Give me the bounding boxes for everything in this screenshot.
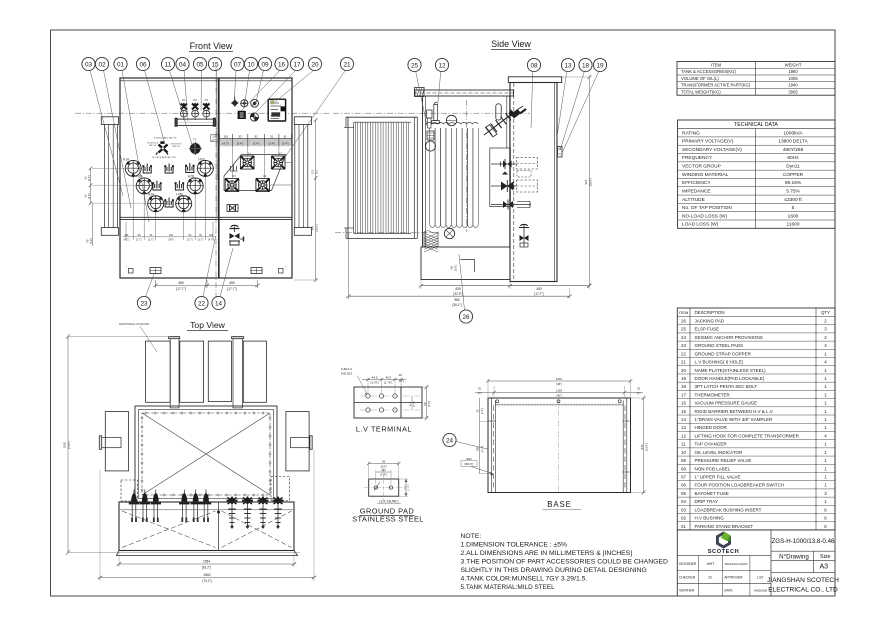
- parking stand bracket (item 01): [185, 163, 195, 173]
- top view tank diagonal brace X: [142, 413, 270, 495]
- scotech logo: [708, 531, 740, 555]
- base detail outline: [488, 398, 631, 493]
- side view oil fill plug circle: [446, 115, 456, 125]
- svg-text:TECHNOLOGIST: TECHNOLOGIST: [724, 562, 748, 566]
- svg-text:[35.6"]: [35.6"]: [589, 178, 593, 186]
- svg-text:A3: A3: [820, 564, 829, 571]
- svg-text:BASE: BASE: [547, 500, 571, 509]
- svg-text:DATE: DATE: [724, 588, 733, 592]
- top view HV bushing: [140, 490, 150, 523]
- additional cooling label: [119, 322, 157, 352]
- svg-text:12: 12: [681, 433, 686, 438]
- svg-text:26: 26: [681, 319, 686, 324]
- svg-text:NON PCB LABEL: NON PCB LABEL: [695, 466, 731, 471]
- svg-text:[1.75"]: [1.75"]: [380, 475, 387, 477]
- svg-text:[2.2"]: [2.2"]: [88, 193, 91, 199]
- svg-text:[4.7"]: [4.7"]: [223, 142, 230, 146]
- side view cabinet opening frame: [490, 148, 511, 207]
- callout balloon 19: [563, 58, 607, 152]
- side view door handle (items 18/19): [558, 147, 563, 158]
- svg-text:11600: 11600: [787, 222, 800, 228]
- svg-text:99.16%: 99.16%: [785, 180, 802, 186]
- svg-text:[3.7"]: [3.7"]: [136, 239, 142, 242]
- svg-text:IMPEDANCE: IMPEDANCE: [682, 188, 711, 194]
- svg-text:ADDITIONAL COOLING: ADDITIONAL COOLING: [119, 322, 149, 326]
- callout balloon 15: [208, 57, 221, 180]
- LV terminal detail plate: [354, 387, 422, 418]
- svg-text:19: 19: [596, 62, 604, 69]
- HV bushing dimension row: [123, 177, 216, 242]
- parts list table: [677, 308, 835, 530]
- callout balloon 17: [254, 57, 304, 115]
- svg-text:1920: 1920: [63, 441, 67, 448]
- svg-text:SOURCE A&B TAP ON: SOURCE A&B TAP ON: [154, 137, 177, 140]
- front view HV/LV divider wall: [217, 78, 219, 278]
- bayonet fuse P3 (item 05): [203, 98, 210, 120]
- svg-text:ALTITUDE: ALTITUDE: [682, 197, 705, 203]
- svg-text:1B1: 1B1: [124, 234, 129, 237]
- svg-text:COPPER: COPPER: [783, 172, 804, 178]
- svg-text:[1.75"]: [1.75"]: [408, 484, 410, 490]
- svg-text:[31.9"]: [31.9"]: [644, 443, 648, 451]
- callout balloon 04: [176, 57, 189, 121]
- svg-text:14: 14: [215, 300, 223, 307]
- ground pad thread label: [377, 500, 401, 504]
- svg-text:06: 06: [681, 483, 686, 488]
- side view LV bushing stack lower: [491, 200, 531, 210]
- drawing number cell: [771, 538, 835, 551]
- svg-text:[61.2"]: [61.2"]: [202, 565, 211, 569]
- side view radiator bank: [344, 117, 418, 238]
- callout balloon 16: [241, 57, 288, 111]
- svg-text:23: 23: [681, 343, 686, 348]
- svg-text:25: 25: [411, 62, 419, 69]
- svg-text:SCOTECH: SCOTECH: [708, 549, 740, 555]
- company name cell: [767, 577, 839, 593]
- svg-text:APPROVER: APPROVER: [724, 576, 743, 580]
- svg-text:JACKING PAD: JACKING PAD: [695, 319, 725, 324]
- svg-text:07: 07: [234, 61, 242, 68]
- thermometer symbol (item 17): [250, 113, 258, 121]
- svg-text:FREQUENCY: FREQUENCY: [682, 155, 713, 161]
- svg-text:NO-LOAD LOSS (W): NO-LOAD LOSS (W): [682, 213, 727, 219]
- top view cabinet: [119, 502, 294, 551]
- svg-text:GROUND STEEL PADS: GROUND STEEL PADS: [695, 343, 744, 348]
- ground pad dim 99: [367, 460, 401, 478]
- top view title: [187, 320, 228, 331]
- base dim height 835: [631, 396, 648, 495]
- drain valve (item 14): [229, 225, 244, 245]
- svg-text:PARKING STAND BRACKET: PARKING STAND BRACKET: [695, 524, 754, 529]
- front view sill line: [120, 217, 292, 219]
- svg-text:5: 5: [792, 205, 795, 211]
- top view radiator bank 4: [243, 341, 266, 402]
- svg-text:11B: 11B: [209, 234, 213, 237]
- top view HV bushing: [151, 490, 161, 523]
- svg-text:1940: 1940: [788, 83, 798, 88]
- svg-text:20: 20: [681, 368, 686, 373]
- svg-text:DOOR HANDLE(PAD LOCKABLE): DOOR HANDLE(PAD LOCKABLE): [695, 376, 765, 381]
- title block frame: [677, 530, 835, 596]
- side view cabinet: [508, 77, 561, 282]
- svg-text:1960: 1960: [788, 69, 798, 74]
- svg-text:Top View: Top View: [190, 320, 226, 330]
- front base corner mark left: [125, 265, 133, 273]
- title block signature grid: [677, 555, 771, 596]
- svg-text:H.V BUSHING: H.V BUSHING: [695, 516, 725, 521]
- svg-text:91: 91: [270, 135, 274, 139]
- svg-text:WHT: WHT: [707, 562, 715, 566]
- svg-text:[3.4"]: [3.4"]: [253, 142, 260, 146]
- svg-text:[46"]: [46"]: [556, 393, 562, 397]
- svg-text:14: 14: [681, 417, 686, 422]
- svg-text:RIGID BARRIER BETWEEN H.V & L.: RIGID BARRIER BETWEEN H.V & L.V: [695, 409, 773, 414]
- svg-text:[1.75"]: [1.75"]: [371, 381, 379, 385]
- svg-text:[3.4"]: [3.4"]: [282, 142, 289, 146]
- svg-text:16: 16: [681, 401, 686, 406]
- svg-text:H2B: H2B: [188, 175, 194, 179]
- top view cabinet front sill: [117, 551, 298, 556]
- front base pad left (item 23 target): [150, 268, 161, 274]
- svg-text:25: 25: [681, 327, 686, 332]
- svg-text:H1A: H1A: [123, 158, 130, 162]
- top view HV bushing: [201, 490, 211, 523]
- side view LV bushing stack upper: [491, 158, 538, 178]
- callout balloon 23: [137, 274, 154, 310]
- svg-text:[32.9"]: [32.9"]: [453, 292, 462, 296]
- svg-text:450: 450: [229, 281, 235, 285]
- callout balloon 11: [161, 57, 192, 146]
- four position loadbreak switch (item 06): [147, 137, 182, 159]
- front view right channel bracket: [294, 117, 311, 236]
- svg-text:Dyn11: Dyn11: [786, 164, 800, 170]
- svg-text:X2: X2: [263, 174, 267, 178]
- svg-text:09: 09: [681, 458, 686, 463]
- weight table: [677, 62, 835, 96]
- svg-text:[1.75"]: [1.75"]: [414, 401, 416, 407]
- top view radiator strut 2: [232, 337, 244, 408]
- LV terminal label: [356, 425, 412, 434]
- svg-text:TANK & ACCESSORIES(KG): TANK & ACCESSORIES(KG): [681, 69, 736, 74]
- svg-text:TECHNICAL DATA: TECHNICAL DATA: [734, 122, 778, 128]
- svg-text:1600: 1600: [788, 213, 799, 219]
- LV terminal right dimensions: [410, 385, 431, 420]
- svg-text:1210: 1210: [556, 377, 563, 381]
- svg-text:1005: 1005: [788, 76, 798, 81]
- front view vertical centerline: [215, 66, 217, 298]
- callout balloon 18: [561, 58, 593, 149]
- svg-text:22: 22: [198, 300, 206, 307]
- svg-text:118: 118: [224, 135, 229, 139]
- callout balloon 03: [82, 57, 123, 196]
- side view tank walls: [423, 96, 510, 247]
- svg-text:08: 08: [681, 466, 686, 471]
- svg-text:180: 180: [451, 265, 454, 270]
- top view LV bushing: [227, 496, 238, 529]
- svg-text:91: 91: [284, 135, 288, 139]
- svg-text:2.ALL DIMENSIONS ARE IN MILLIM: 2.ALL DIMENSIONS ARE IN MILLIMETERS & [I…: [461, 550, 633, 557]
- svg-text:08: 08: [530, 62, 538, 69]
- top view HV bushing: [129, 490, 139, 523]
- svg-text:X0: X0: [232, 174, 236, 178]
- svg-text:18: 18: [582, 62, 590, 69]
- svg-text:845: 845: [311, 225, 315, 230]
- svg-text:05: 05: [681, 491, 686, 496]
- svg-text:[48"]: [48"]: [556, 382, 562, 386]
- svg-text:[4.7"]: [4.7"]: [212, 139, 218, 142]
- svg-text:810: 810: [640, 444, 644, 449]
- svg-text:[1"]: [1"]: [478, 392, 482, 395]
- svg-text:VERIFIER: VERIFIER: [679, 588, 695, 592]
- svg-text:ELSP FUSE: ELSP FUSE: [695, 327, 720, 332]
- svg-text:DRIP TRAY: DRIP TRAY: [695, 499, 719, 504]
- svg-text:[17.7"]: [17.7"]: [176, 287, 186, 291]
- svg-text:3905: 3905: [788, 89, 798, 94]
- svg-text:92: 92: [238, 135, 242, 139]
- svg-text:[11.7"]: [11.7"]: [482, 445, 484, 452]
- svg-text:835: 835: [455, 287, 461, 291]
- svg-text:960: 960: [454, 298, 460, 302]
- drawing size cells: [771, 551, 835, 573]
- svg-text:TAP ON: TAP ON: [149, 144, 157, 147]
- side view tank rim bracket: [496, 104, 501, 120]
- svg-text:1"DRAIN VALVE WITH 3/8" SAMPLE: 1"DRAIN VALVE WITH 3/8" SAMPLER: [695, 417, 774, 422]
- svg-text:[33.3"]: [33.3"]: [316, 224, 319, 231]
- svg-text:05: 05: [196, 61, 204, 68]
- top view HV bushing: [179, 490, 189, 523]
- svg-text:THERMOMETER: THERMOMETER: [695, 392, 731, 397]
- svg-text:[2.2"]: [2.2"]: [88, 175, 91, 181]
- svg-text:SEISMIC ANCHOR PROVISIONS: SEISMIC ANCHOR PROVISIONS: [695, 335, 763, 340]
- base detail bolt circles: [496, 400, 621, 403]
- svg-text:NAME PLATE(STAINLESS STEEL): NAME PLATE(STAINLESS STEEL): [695, 368, 767, 373]
- svg-text:13: 13: [564, 62, 572, 69]
- LV terminal hole leader label: [341, 367, 367, 395]
- callout balloon 25: [408, 58, 427, 126]
- callout balloon 13: [557, 58, 575, 140]
- svg-text:H3A: H3A: [148, 193, 155, 197]
- side view base: [421, 247, 510, 280]
- svg-text:ITEM: ITEM: [679, 310, 689, 315]
- callout balloon 26: [459, 254, 473, 323]
- LV compartment slanted barrier outline: [224, 155, 286, 191]
- svg-text:H2A: H2A: [136, 175, 143, 179]
- svg-text:15: 15: [211, 61, 219, 68]
- svg-text:ZGS-H-1000/13.8-0.46: ZGS-H-1000/13.8-0.46: [772, 538, 835, 545]
- svg-text:25A: 25A: [169, 234, 174, 237]
- svg-text:18: 18: [681, 384, 686, 389]
- svg-text:15: 15: [681, 409, 686, 414]
- svg-text:X1: X1: [248, 152, 252, 156]
- LV bushing X0 (item 21): [225, 174, 239, 192]
- svg-text:HINGED DOOR: HINGED DOOR: [695, 425, 728, 430]
- callout balloon 02: [95, 57, 131, 208]
- svg-text:16: 16: [278, 61, 286, 68]
- svg-text:P1: P1: [182, 98, 186, 102]
- svg-text:24: 24: [681, 335, 686, 340]
- svg-text:[73.2"]: [73.2"]: [202, 579, 211, 583]
- side view horizontal centerline lower: [335, 232, 435, 234]
- LV bushing X3 (item 21): [271, 152, 285, 170]
- side view height dimension 905: [562, 75, 593, 288]
- svg-text:H3B: H3B: [176, 193, 182, 197]
- svg-text:01: 01: [117, 61, 125, 68]
- HV bushing H3B (item 02): [176, 193, 192, 213]
- ground pad plate: [364, 468, 404, 500]
- side view tank lid beam: [415, 90, 514, 96]
- LV terminal top dimensions: [362, 373, 406, 393]
- top view seismic anchor right: [271, 477, 290, 501]
- fuse support bar: [175, 118, 216, 126]
- svg-text:60Hz: 60Hz: [787, 155, 799, 161]
- svg-text:04: 04: [681, 499, 686, 504]
- svg-text:[3.9"]: [3.9"]: [90, 238, 93, 244]
- oil level indicator symbol (item 10): [241, 100, 248, 107]
- svg-text:[99"]: [99"]: [169, 239, 174, 242]
- svg-text:04/25/2008: 04/25/2008: [754, 588, 768, 592]
- svg-text:N°Drawing: N°Drawing: [779, 553, 809, 560]
- HV bushing H1A (item 02): [123, 158, 141, 178]
- front base corner mark right: [279, 265, 287, 273]
- svg-text:[1.9"]: [1.9"]: [482, 408, 484, 414]
- svg-text:23: 23: [140, 300, 148, 307]
- svg-text:[3.5"]: [3.5"]: [427, 401, 431, 408]
- ground pad holes: [374, 482, 393, 491]
- side view ELSP fuse stack (item 25): [426, 110, 436, 151]
- base dim inner width: [475, 386, 643, 397]
- svg-text:LOADBREAK BUSHING INSERT: LOADBREAK BUSHING INSERT: [695, 507, 762, 512]
- svg-text:13: 13: [681, 425, 686, 430]
- front base pad right: [251, 268, 262, 274]
- notes block: [461, 533, 668, 591]
- bayonet fuse P2 (item 05): [192, 98, 199, 120]
- side view LV bushing stack middle: [491, 180, 538, 192]
- svg-text:17: 17: [681, 392, 686, 397]
- dim label 118 box: [211, 135, 218, 143]
- side view drain valve: [519, 224, 529, 247]
- side view hatched wedge: [424, 231, 438, 252]
- svg-text:02: 02: [98, 61, 106, 68]
- vacuum gauge symbol (item 16): [238, 111, 245, 118]
- ground pad title: [352, 507, 424, 524]
- svg-text:03: 03: [85, 61, 93, 68]
- svg-text:NOTE:: NOTE:: [461, 533, 482, 540]
- side view lifting hook (item 12): [432, 102, 440, 124]
- ground pad right dim: [399, 479, 410, 496]
- top view height dimension 1920: [63, 334, 301, 554]
- svg-text:[1"]: [1"]: [637, 392, 641, 395]
- svg-text:5.TANK MATERIAL:MILD STEEL: 5.TANK MATERIAL:MILD STEEL: [461, 584, 556, 591]
- front left dimension chain: [84, 167, 157, 246]
- top view seismic anchor left (item 24 style): [121, 480, 138, 501]
- svg-text:LIFTING HOOK FOR COMPLETE TRAN: LIFTING HOOK FOR COMPLETE TRANSFORMER: [695, 433, 800, 438]
- svg-text:6-Φ14.3: 6-Φ14.3: [341, 367, 352, 371]
- svg-text:44.5: 44.5: [372, 375, 378, 379]
- svg-text:PRIMARY VOLTAGE(V): PRIMARY VOLTAGE(V): [682, 139, 734, 145]
- svg-text:STAINLESS STEEL: STAINLESS STEEL: [352, 515, 424, 524]
- svg-text:Side View: Side View: [491, 39, 531, 49]
- side view overall dimension 960: [346, 233, 571, 307]
- svg-text:24: 24: [446, 437, 454, 444]
- base dim outer width: [486, 377, 632, 397]
- svg-text:H1B: H1B: [198, 158, 204, 162]
- svg-text:[4.2"]: [4.2"]: [124, 239, 130, 242]
- svg-text:TOTAL WEIGHT(KG): TOTAL WEIGHT(KG): [681, 89, 721, 94]
- LV bushing X1 (item 21): [240, 152, 254, 170]
- ground trident symbol: [230, 165, 238, 171]
- svg-text:VECTOR GROUP: VECTOR GROUP: [682, 164, 721, 170]
- svg-text:09: 09: [261, 61, 269, 68]
- svg-text:02: 02: [681, 516, 686, 521]
- LV bushing column extension lines: [232, 143, 292, 185]
- svg-text:OIL LEVEL INDICATOR: OIL LEVEL INDICATOR: [695, 450, 744, 455]
- HV bushing H1B (item 02): [197, 158, 213, 178]
- svg-text:44.5: 44.5: [381, 469, 386, 472]
- svg-text:≤3300 ft: ≤3300 ft: [784, 197, 802, 203]
- svg-text:ITEM: ITEM: [711, 63, 722, 68]
- svg-text:DESCRIPTION: DESCRIPTION: [695, 310, 725, 315]
- HV bushing H3A (item 02): [148, 193, 164, 213]
- callout balloon 06: [136, 57, 165, 144]
- svg-text:(1/2-13UNC): (1/2-13UNC): [379, 500, 398, 504]
- side view horizontal centerline upper: [333, 112, 530, 114]
- svg-text:[0.9"]: [0.9"]: [455, 265, 458, 271]
- callout balloon 10: [244, 57, 257, 105]
- svg-text:1860: 1860: [203, 573, 210, 577]
- svg-text:12: 12: [438, 62, 446, 69]
- svg-text:T1: T1: [193, 138, 197, 142]
- top view cabinet center bolt: [217, 511, 220, 514]
- svg-text:905: 905: [584, 179, 588, 184]
- LV bushing X2 (item 21): [256, 174, 270, 192]
- side view title: [491, 39, 531, 50]
- svg-text:270: 270: [311, 169, 315, 174]
- svg-text:16: 16: [398, 373, 402, 377]
- svg-text:21: 21: [343, 61, 351, 68]
- front bottom dimension 450/450: [153, 280, 259, 291]
- callout balloon 08: [527, 58, 540, 128]
- front view title: [189, 41, 233, 52]
- svg-text:JIANGSHAN SCOTECH: JIANGSHAN SCOTECH: [767, 577, 839, 584]
- nameplate (item 20): [268, 99, 285, 121]
- svg-text:CHECKER: CHECKER: [679, 576, 696, 580]
- front view horizontal centerline: [75, 112, 330, 114]
- svg-text:22: 22: [681, 351, 686, 356]
- ground pad dim 44.5: [376, 469, 391, 484]
- side view corrugation centerline: [466, 100, 468, 232]
- side view lifting lug hatched: [415, 88, 425, 97]
- LV dimension strip: [219, 134, 292, 146]
- pressure relief valve symbol (item 09): [251, 99, 259, 107]
- svg-text:[4.7"]: [4.7"]: [208, 239, 214, 242]
- svg-text:450: 450: [536, 287, 542, 291]
- svg-text:[17.7"]: [17.7"]: [534, 292, 543, 296]
- svg-text:L.V BUSHING( 6 HOLE): L.V BUSHING( 6 HOLE): [695, 360, 744, 365]
- svg-text:11: 11: [681, 442, 686, 447]
- svg-text:Size: Size: [820, 554, 831, 560]
- callout balloon 09: [255, 57, 272, 106]
- svg-text:P2: P2: [193, 98, 197, 102]
- svg-text:WEIGHT: WEIGHT: [785, 63, 802, 68]
- callout balloon 21: [283, 57, 354, 160]
- parking stand bracket (item 01): [164, 198, 174, 208]
- top view tank bolted flange: [141, 412, 272, 497]
- side view circle-cross symbol: [444, 228, 454, 238]
- svg-text:ELECTRICAL CO., LTD: ELECTRICAL CO., LTD: [768, 587, 838, 594]
- svg-text:TRANSFORMER ACTIVE PART(KG): TRANSFORMER ACTIVE PART(KG): [681, 83, 751, 88]
- svg-text:LOAD LOSS (W): LOAD LOSS (W): [682, 222, 719, 228]
- front view cabinet outline: [120, 78, 292, 278]
